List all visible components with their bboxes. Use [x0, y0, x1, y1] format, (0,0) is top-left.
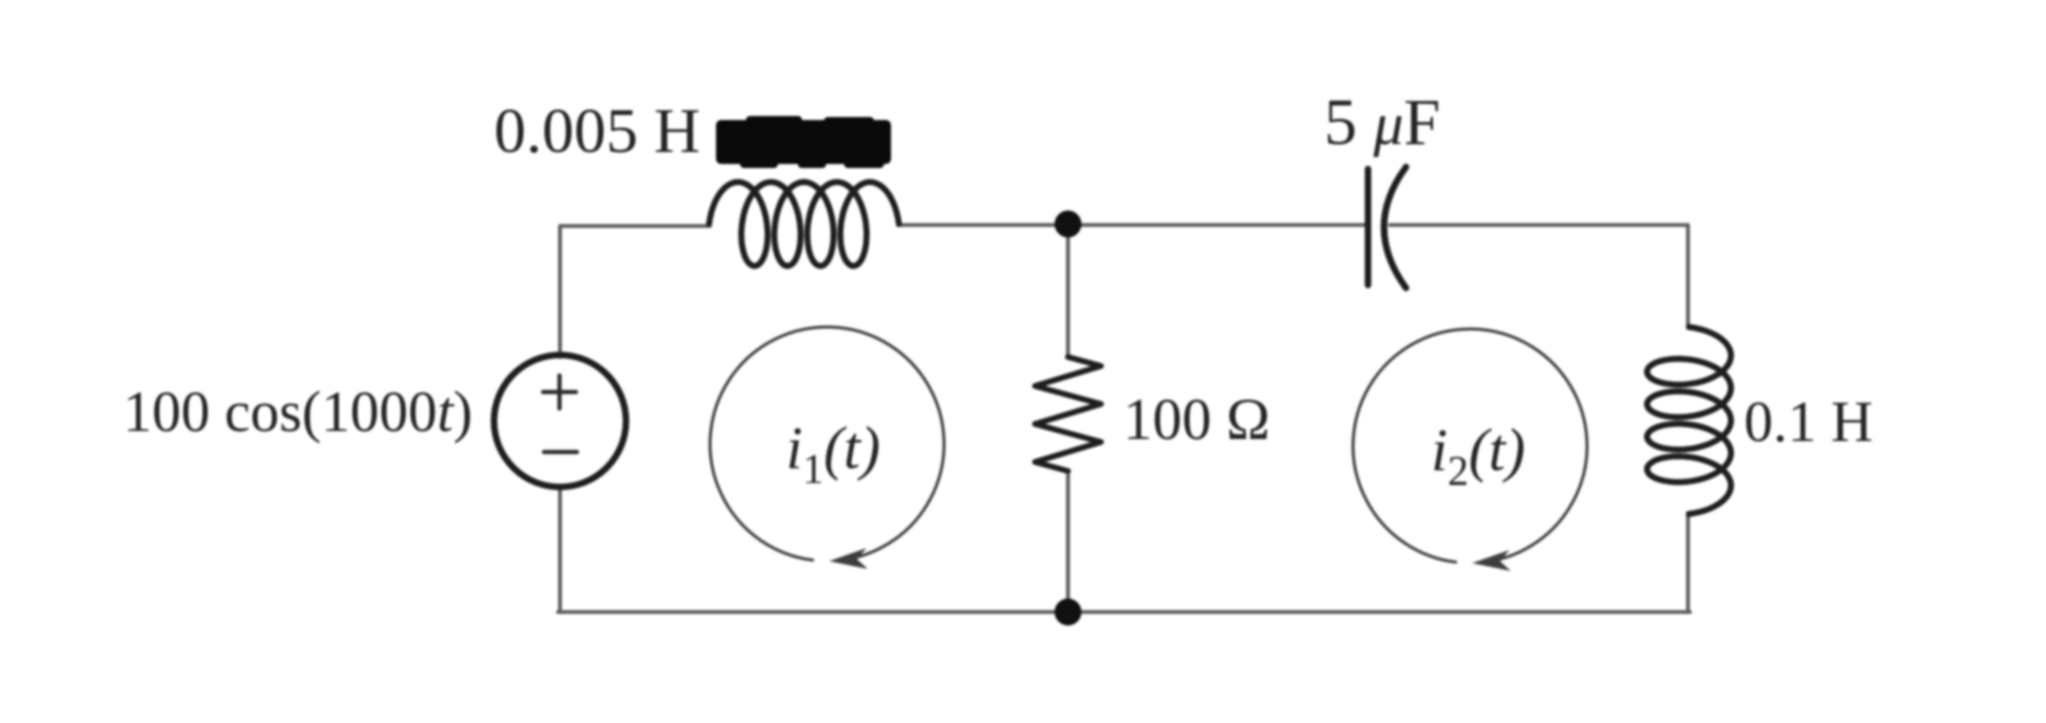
wire top-left segment [560, 226, 710, 357]
mesh current i1 arc [710, 327, 944, 561]
svg-text:0.1 H: 0.1 H [1744, 389, 1873, 454]
svg-text:100 Ω: 100 Ω [1123, 386, 1270, 452]
svg-text:0.005 H: 0.005 H [494, 95, 700, 166]
mesh current i2 arc [1353, 329, 1587, 563]
node B bottom junction dot [1055, 599, 1082, 626]
inductor L1 coil 0.005 H [709, 182, 899, 266]
voltage source plus sign [543, 376, 576, 409]
wire resistor top stem [1066, 225, 1070, 357]
svg-text:i1(t): i1(t) [786, 415, 880, 493]
voltage source V1 circle [494, 355, 626, 487]
node A top junction dot [1055, 211, 1082, 238]
mesh current i1 arrowhead [829, 548, 868, 569]
wire resistor bottom stem [1066, 471, 1070, 612]
inductor L2 coil 0.1 H [1647, 327, 1731, 514]
wire top-middle segment [898, 223, 1368, 227]
svg-text:i2(t): i2(t) [1431, 417, 1525, 495]
wire top-right segment [1390, 225, 1688, 328]
redaction scribble box [716, 116, 891, 168]
mesh current i2 arrowhead [1472, 550, 1511, 571]
wire bottom segment [558, 610, 1690, 614]
svg-text:100 cos(1000t): 100 cos(1000t) [123, 379, 473, 444]
wire left lower segment [558, 487, 562, 612]
capacitor C1 right plate (curved) [1384, 167, 1406, 288]
wire right lower segment [1686, 513, 1690, 612]
capacitor C1 left plate [1365, 169, 1372, 285]
svg-text:5 μF: 5 μF [1324, 86, 1440, 159]
resistor R1 zigzag 100 ohm [1035, 357, 1101, 471]
voltage source minus sign [544, 450, 577, 454]
